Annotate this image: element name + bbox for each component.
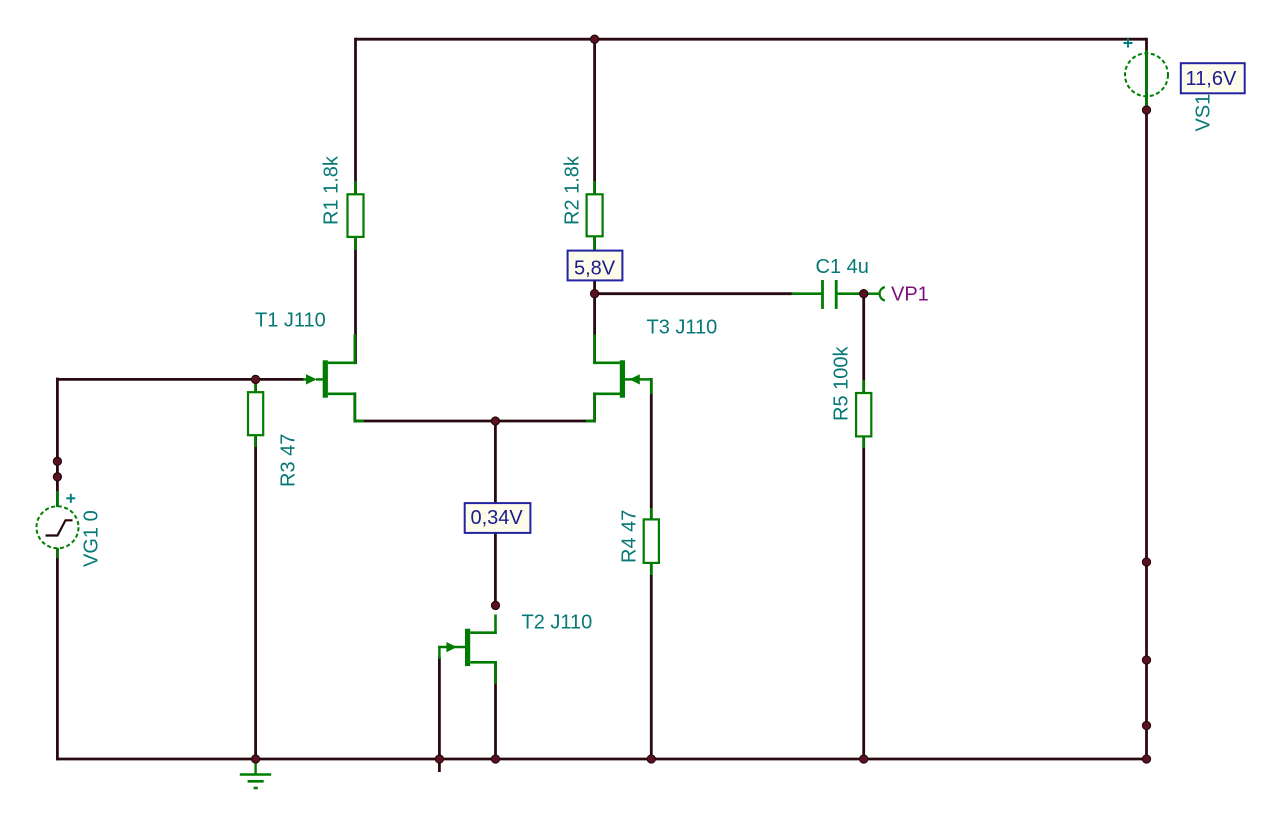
wire right rail VS1 branch xyxy=(1145,38,1148,761)
wire R3 upper xyxy=(254,378,257,393)
label VG1 0 xyxy=(81,510,103,567)
wire R4 lower xyxy=(650,562,653,760)
resistor R5 xyxy=(856,380,871,448)
transistor T2 xyxy=(438,615,497,685)
svg-text:T3 J110: T3 J110 xyxy=(647,317,718,339)
wire T1 source to middle xyxy=(355,392,596,421)
label R5 100k xyxy=(831,346,853,421)
wire T2 source drop xyxy=(494,661,497,760)
junction T1 gate / R3 xyxy=(252,375,260,383)
value box 11,6V xyxy=(1181,63,1245,93)
wire C1 node to R5 xyxy=(862,294,865,394)
wire bottom rail xyxy=(56,758,1148,761)
wire node to C1 xyxy=(595,292,793,295)
junction top rail R2 xyxy=(591,35,599,43)
junction C1 / VP1 xyxy=(860,290,868,298)
junction below VS1 xyxy=(1142,106,1150,114)
label R4 47 xyxy=(619,510,641,563)
wire R3 lower xyxy=(254,434,257,760)
svg-text:5,8V: 5,8V xyxy=(574,258,616,280)
wire R1 lower / T1 drain xyxy=(354,236,357,364)
svg-text:0,34V: 0,34V xyxy=(471,507,524,529)
label VP1 xyxy=(891,284,929,306)
junction right rail c xyxy=(1142,721,1150,729)
wire voltage box to node xyxy=(593,279,596,295)
pin VP1 xyxy=(864,287,885,301)
svg-text:C1 4u: C1 4u xyxy=(816,256,869,278)
wire T3 gate drop upper xyxy=(650,378,653,520)
svg-text:R5 100k: R5 100k xyxy=(831,346,853,421)
wire T1 gate xyxy=(56,378,304,381)
wire T3 source drop xyxy=(593,392,596,422)
svg-text:R3 47: R3 47 xyxy=(278,434,300,487)
svg-text:R4 47: R4 47 xyxy=(619,510,641,563)
wire T2 gate drop xyxy=(438,657,441,772)
junction left wire lower xyxy=(53,473,61,481)
value box 5,8V xyxy=(568,251,623,281)
junction bottom R5 xyxy=(860,755,868,763)
value box 0,34V xyxy=(465,503,531,533)
junction middle wire xyxy=(491,417,499,425)
wire middle junction drop xyxy=(494,421,497,606)
label T3 J110 xyxy=(647,317,718,339)
svg-text:T1 J110: T1 J110 xyxy=(255,310,326,332)
svg-text:VS1: VS1 xyxy=(1193,94,1215,132)
junction bottom ground xyxy=(252,755,260,763)
junction right rail a xyxy=(1142,558,1150,566)
junction T2 drain xyxy=(491,601,499,609)
junction left wire upper xyxy=(53,457,61,465)
wire top rail xyxy=(356,38,1147,41)
source VG1 xyxy=(37,491,79,558)
junction node 5,8V xyxy=(591,290,599,298)
resistor R4 xyxy=(644,508,659,575)
junction bottom T2 gate xyxy=(435,755,443,763)
label R2 1.8k xyxy=(562,155,584,225)
junction bottom T2 source xyxy=(491,755,499,763)
ground xyxy=(240,759,271,788)
wire R1 upper xyxy=(354,38,357,195)
capacitor C1 xyxy=(792,280,865,309)
svg-text:VP1: VP1 xyxy=(891,284,929,306)
wire T3 drain vertical xyxy=(593,292,596,364)
label R3 47 xyxy=(278,434,300,487)
svg-text:VG1 0: VG1 0 xyxy=(81,510,103,567)
svg-text:R2 1.8k: R2 1.8k xyxy=(562,155,584,225)
wire R2 upper xyxy=(593,38,596,195)
resistor R3 xyxy=(248,381,263,447)
transistor T1 xyxy=(303,335,364,422)
transistor T3 xyxy=(586,335,652,422)
resistor R1 xyxy=(348,181,364,250)
svg-text:R1 1.8k: R1 1.8k xyxy=(321,155,343,225)
svg-text:11,6V: 11,6V xyxy=(1186,68,1237,90)
wire left branch vertical xyxy=(56,378,59,761)
label C1 4u xyxy=(816,256,869,278)
wire R5 lower xyxy=(862,435,865,760)
resistor R2 xyxy=(587,181,603,252)
label R1 1.8k xyxy=(321,155,343,225)
junction bottom R4 xyxy=(647,755,655,763)
label T1 J110 xyxy=(255,310,326,332)
junction right rail b xyxy=(1142,656,1150,664)
source VS1 xyxy=(1124,39,1169,108)
svg-text:T2 J110: T2 J110 xyxy=(522,612,593,634)
label VS1 xyxy=(1193,94,1215,132)
label T2 J110 xyxy=(522,612,593,634)
wire R2 lower to voltage box xyxy=(593,236,596,253)
junction bottom right corner xyxy=(1142,755,1150,763)
